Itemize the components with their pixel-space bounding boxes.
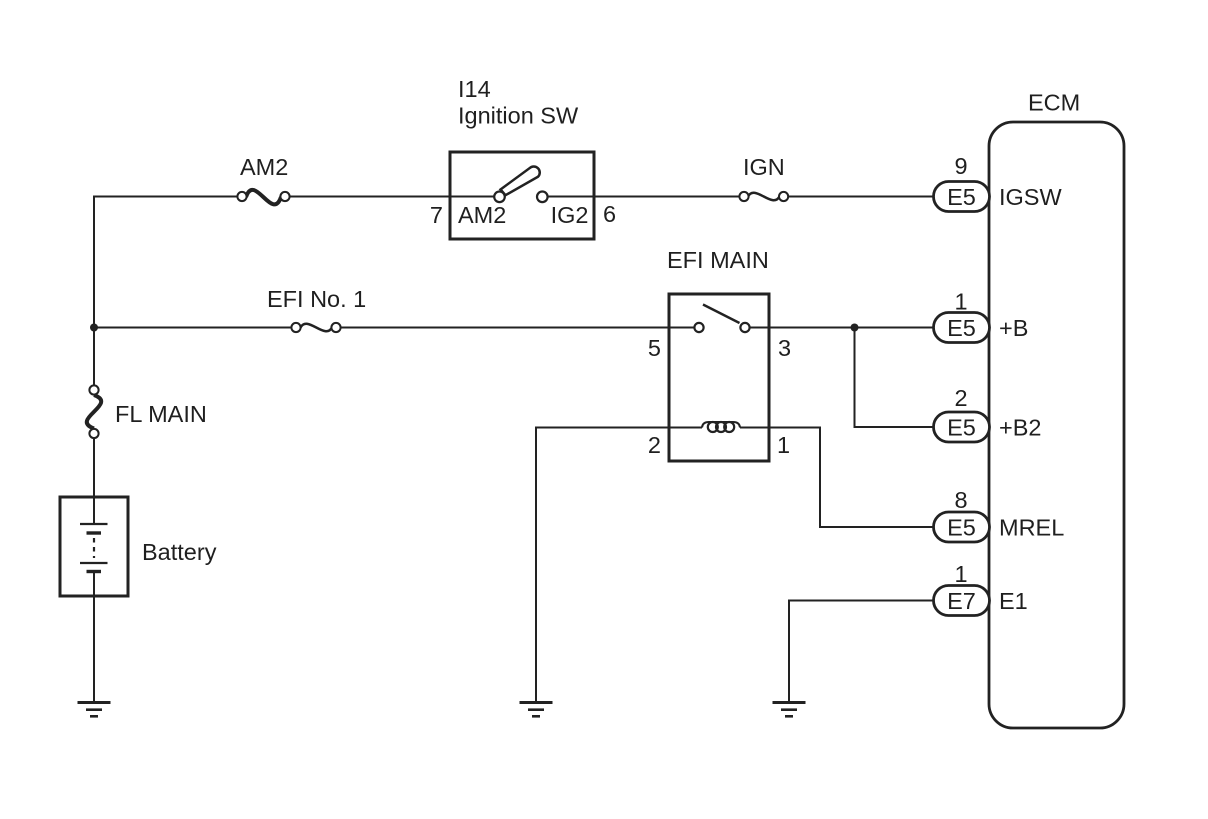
svg-text:FL MAIN: FL MAIN [115, 401, 207, 427]
wire: box left edge to contact 5 [669, 327, 694, 329]
svg-text:1: 1 [777, 432, 790, 458]
svg-text:+B: +B [999, 315, 1028, 341]
contact IG2 (pin 6) [537, 192, 548, 203]
wire: relay pin 2 to ground [536, 428, 669, 702]
battery dashed center [93, 538, 95, 558]
svg-text:Battery: Battery [142, 539, 217, 565]
wire: contact 3 to box right edge [750, 327, 769, 329]
svg-text:E5: E5 [947, 515, 976, 541]
svg-text:3: 3 [778, 335, 791, 361]
svg-text:E5: E5 [947, 315, 976, 341]
svg-text:Ignition SW: Ignition SW [458, 103, 579, 129]
contact AM2 (pin 7) [494, 192, 505, 203]
wire: IGN fuse to E5-9 [788, 196, 934, 198]
svg-text:E5: E5 [947, 184, 976, 210]
wire: IG2 contact to box right edge [547, 196, 594, 198]
ground (E1) [773, 703, 806, 717]
svg-text:9: 9 [954, 153, 967, 179]
relay EFI MAIN box [669, 294, 769, 461]
battery box [60, 497, 128, 596]
wire: junction down to +B2 [855, 328, 935, 428]
battery plate long top [80, 523, 108, 525]
svg-text:IGN: IGN [743, 154, 785, 180]
svg-text:AM2: AM2 [458, 202, 506, 228]
wire: fuse to EFI MAIN relay [341, 327, 670, 329]
ECM box [989, 122, 1124, 728]
connector E5 pin 1 +B [934, 289, 1029, 343]
wire [290, 196, 451, 198]
svg-text:E5: E5 [947, 415, 976, 441]
relay coil [702, 422, 740, 432]
svg-text:8: 8 [954, 487, 967, 513]
relay contact pin 5 [694, 323, 703, 332]
wire: coil to right box edge [740, 427, 769, 429]
svg-text:ECM: ECM [1028, 90, 1080, 116]
wire: battery riser upper segment [93, 197, 95, 386]
wire: box left edge to AM2 contact [450, 196, 495, 198]
wire EFI No.1 row [94, 327, 291, 329]
wire: relay pin 1 to E5 MREL [769, 428, 934, 528]
svg-text:I14: I14 [458, 76, 491, 102]
wire: relay coil to left box edge [669, 427, 702, 429]
svg-text:5: 5 [648, 335, 661, 361]
fuse IGN [739, 192, 788, 201]
svg-text:IG2: IG2 [551, 202, 589, 228]
svg-text:E1: E1 [999, 588, 1028, 614]
battery plate short bottom [87, 570, 102, 573]
battery plate short top [87, 531, 102, 534]
svg-text:1: 1 [954, 561, 967, 587]
ground (battery) [78, 703, 111, 717]
switch lever I14 [501, 166, 540, 195]
fusible link FL MAIN [87, 385, 101, 438]
connector E5 pin 2 +B2 [934, 385, 1042, 442]
fuse AM2 [237, 190, 289, 205]
svg-text:MREL: MREL [999, 515, 1064, 541]
connector E7 pin 1 E1 [934, 561, 1028, 616]
svg-text:2: 2 [648, 432, 661, 458]
connector E5 pin 9 IGSW [934, 153, 1063, 212]
connector E5 pin 8 MREL [934, 487, 1065, 542]
fuse EFI No. 1 [291, 323, 340, 332]
wire: battery negative to ground [93, 572, 95, 702]
ground (relay coil) [520, 703, 553, 717]
wire: relay pin 3 to E5 +B [769, 327, 934, 329]
node: +B junction [851, 324, 859, 332]
wire IGSW row: battery node to ignition switch [94, 197, 238, 386]
svg-text:AM2: AM2 [240, 154, 288, 180]
wire: FL MAIN to battery [93, 438, 95, 523]
svg-text:IGSW: IGSW [999, 184, 1062, 210]
wire: ignition switch to IGN fuse [594, 196, 739, 198]
relay switch blade [703, 305, 740, 324]
svg-text:1: 1 [954, 289, 967, 315]
battery plate long bottom [80, 562, 108, 564]
svg-text:7: 7 [430, 202, 443, 228]
wire: E7 E1 to ground [789, 601, 934, 702]
svg-text:6: 6 [603, 201, 616, 227]
switch I14 ignition SW box [450, 152, 594, 239]
svg-text:E7: E7 [947, 588, 976, 614]
svg-text:2: 2 [954, 385, 967, 411]
svg-text:EFI No. 1: EFI No. 1 [267, 286, 366, 312]
svg-text:EFI MAIN: EFI MAIN [667, 247, 769, 273]
relay contact pin 3 [740, 323, 749, 332]
svg-text:+B2: +B2 [999, 415, 1041, 441]
node: junction battery riser / EFI No.1 wire [90, 324, 98, 332]
